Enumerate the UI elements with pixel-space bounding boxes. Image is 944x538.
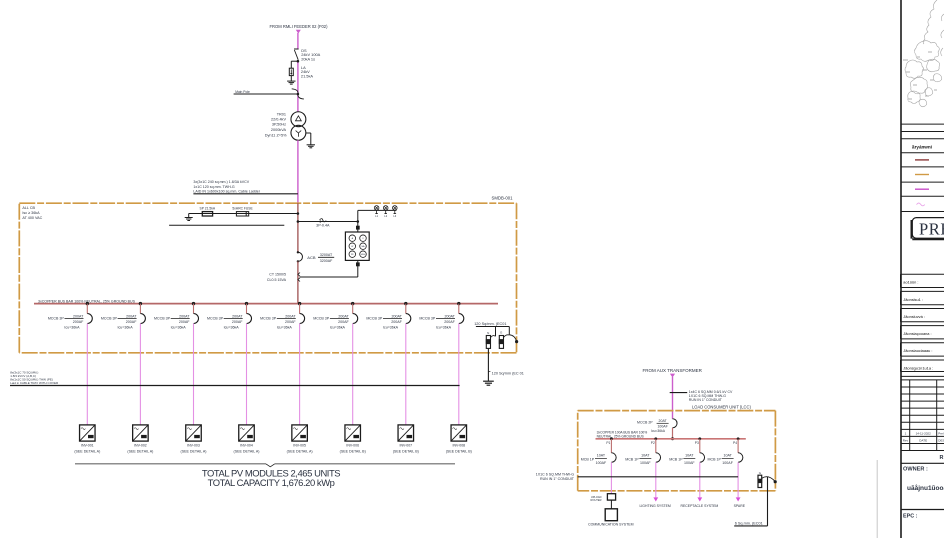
svg-text:OWNER :: OWNER : xyxy=(903,467,928,473)
svg-text:3200AT: 3200AT xyxy=(320,253,333,257)
svg-text:100AF: 100AF xyxy=(722,461,733,465)
svg-text:Jãonsgu1n1u1a :: Jãonsgu1n1u1a : xyxy=(903,365,933,370)
svg-text:PRE: PRE xyxy=(919,220,944,239)
svg-text:INV-001: INV-001 xyxy=(81,443,94,447)
svg-text:6 Sq.mm. (EC01: 6 Sq.mm. (EC01 xyxy=(735,521,763,525)
svg-text:Jãonsiauciaaau :: Jãonsiauciaaau : xyxy=(903,348,932,353)
svg-text:1X1C 6 SQ.MM THW-G: 1X1C 6 SQ.MM THW-G xyxy=(536,473,574,477)
svg-text:MCCB 3P: MCCB 3P xyxy=(419,317,436,321)
svg-text:5xHRC FUSE: 5xHRC FUSE xyxy=(232,206,253,210)
svg-text:200AT: 200AT xyxy=(232,314,243,318)
svg-text:200AT: 200AT xyxy=(444,314,455,318)
svg-text:MCCB 3P: MCCB 3P xyxy=(101,317,118,321)
svg-text:INV-005: INV-005 xyxy=(293,443,306,447)
svg-text:SP 21.5kA: SP 21.5kA xyxy=(200,206,216,210)
svg-text:INV-006: INV-006 xyxy=(346,443,359,447)
svg-text:10AT: 10AT xyxy=(641,454,650,458)
svg-text:Icu=36kA: Icu=36kA xyxy=(436,326,452,330)
svg-text:ACB: ACB xyxy=(307,255,316,260)
svg-text:10AT: 10AT xyxy=(597,454,606,458)
svg-text:10AT: 10AT xyxy=(723,454,732,458)
svg-text:100AF: 100AF xyxy=(596,461,607,465)
svg-text:200AF: 200AF xyxy=(285,320,296,324)
svg-text:22/0.4kV: 22/0.4kV xyxy=(271,118,286,122)
svg-text:MCCB 2P: MCCB 2P xyxy=(637,421,653,425)
svg-text:AT 400 VAC: AT 400 VAC xyxy=(22,216,42,220)
svg-text:Icu=36kA: Icu=36kA xyxy=(171,326,187,330)
svg-text:200AT: 200AT xyxy=(126,314,137,318)
svg-text:200AT: 200AT xyxy=(285,314,296,318)
svg-text:Isc ≥ 36kA: Isc ≥ 36kA xyxy=(22,211,40,215)
svg-text:MCCB 3P: MCCB 3P xyxy=(260,317,277,321)
svg-text:200AF: 200AF xyxy=(73,320,84,324)
svg-text:DES: DES xyxy=(938,439,944,443)
svg-text:P3: P3 xyxy=(695,441,699,445)
svg-text:20kA 1s: 20kA 1s xyxy=(301,56,315,61)
svg-text:MCCB 3P: MCCB 3P xyxy=(366,317,383,321)
svg-text:Jãonsiaçooana :: Jãonsiaçooana : xyxy=(903,331,931,336)
svg-text:RUN IN 1" CONDUIT: RUN IN 1" CONDUIT xyxy=(689,398,723,402)
svg-text:Icu=36kA: Icu=36kA xyxy=(383,326,399,330)
svg-text:Jãonsluvvá :: Jãonsluvvá : xyxy=(903,314,925,319)
svg-text:INV-003: INV-003 xyxy=(187,443,200,447)
svg-text:Dyn11 Z=5%: Dyn11 Z=5% xyxy=(265,133,287,137)
svg-text:INV-004: INV-004 xyxy=(240,443,253,447)
svg-text:MCCB 3P: MCCB 3P xyxy=(154,317,171,321)
svg-text:ALL CB: ALL CB xyxy=(22,206,35,210)
svg-text:Jãonslsu1 :: Jãonslsu1 : xyxy=(903,297,923,302)
svg-text:MCB 1P: MCB 1P xyxy=(625,457,639,461)
svg-text:200AF: 200AF xyxy=(126,320,137,324)
svg-text:(SEE DETAIL A): (SEE DETAIL A) xyxy=(287,450,313,454)
svg-text:uãåjnu1ũooann: uãåjnu1ũooann xyxy=(907,484,944,492)
svg-text:200AF: 200AF xyxy=(444,320,455,324)
svg-text:Icu=36kA: Icu=36kA xyxy=(224,326,240,330)
svg-text:(SEE DETAIL A): (SEE DETAIL A) xyxy=(74,450,100,454)
svg-text:RECEPTACLE SYSTEM: RECEPTACLE SYSTEM xyxy=(681,504,719,508)
svg-text:MCB 1P: MCB 1P xyxy=(669,457,683,461)
svg-text:(SEE DETAIL A): (SEE DETAIL A) xyxy=(181,450,207,454)
svg-text:MCCB 3P: MCCB 3P xyxy=(313,317,330,321)
svg-text:ãryánwni: ãryánwni xyxy=(912,144,932,149)
svg-text:SPARE: SPARE xyxy=(734,504,746,508)
svg-text:10AT: 10AT xyxy=(685,454,694,458)
svg-text:1X1C 6 SQ.MM THW-G: 1X1C 6 SQ.MM THW-G xyxy=(689,394,726,398)
svg-text:TOTAL CAPACITY 1,676.20 kWp: TOTAL CAPACITY 1,676.20 kWp xyxy=(208,477,335,488)
svg-text:21.5kA: 21.5kA xyxy=(301,73,314,78)
svg-text:Icu=36kA: Icu=36kA xyxy=(651,429,666,433)
svg-text:Icu=36kA: Icu=36kA xyxy=(118,326,134,330)
svg-text:RUN IN 1" CONDUIT: RUN IN 1" CONDUIT xyxy=(540,477,575,481)
svg-text:Icu=36kA: Icu=36kA xyxy=(330,326,346,330)
svg-text:120 Sq/mm. (EC01: 120 Sq/mm. (EC01 xyxy=(474,322,506,326)
svg-text:100AF: 100AF xyxy=(684,461,695,465)
svg-text:120 Sq/mm (EC 01: 120 Sq/mm (EC 01 xyxy=(492,371,524,375)
svg-text:P1: P1 xyxy=(606,441,610,445)
svg-text:INV-008: INV-008 xyxy=(452,443,465,447)
svg-text:R: R xyxy=(940,455,944,461)
svg-text:P2: P2 xyxy=(651,441,655,445)
svg-text:3x(3x1C 240 sq.mm.) 1.8/3A kVC: 3x(3x1C 240 sq.mm.) 1.8/3A kVCV xyxy=(193,180,249,184)
svg-text:(SEE DETAIL A): (SEE DETAIL A) xyxy=(127,450,153,454)
svg-text:ao1ûün :: ao1ûün : xyxy=(903,280,918,285)
svg-text:200AF: 200AF xyxy=(391,320,402,324)
svg-text:FROM AUX TRANSFORMER: FROM AUX TRANSFORMER xyxy=(642,368,702,373)
svg-text:Main Pole: Main Pole xyxy=(235,90,250,94)
svg-text:LAID IN 1x600x100 sq.mm. Cable: LAID IN 1x600x100 sq.mm. Cable Ladder xyxy=(193,190,260,194)
svg-text:(SEE DETAIL A): (SEE DETAIL A) xyxy=(234,450,260,454)
svg-text:DATE: DATE xyxy=(919,439,927,443)
svg-text:3xCOPPER 100A BUS BAR 100%: 3xCOPPER 100A BUS BAR 100% xyxy=(597,430,648,434)
svg-text:MCB 1P: MCB 1P xyxy=(708,457,722,461)
svg-text:20AT: 20AT xyxy=(659,419,668,423)
svg-text:200AT: 200AT xyxy=(391,314,402,318)
svg-text:100AF: 100AF xyxy=(657,425,667,429)
svg-text:1x1C 120 sq.mm. TWH-G: 1x1C 120 sq.mm. TWH-G xyxy=(193,185,234,189)
svg-text:CT 1500/5: CT 1500/5 xyxy=(269,273,286,277)
svg-text:EPC :: EPC : xyxy=(903,513,918,519)
svg-text:2000kVA: 2000kVA xyxy=(271,128,287,132)
svg-text:200AF: 200AF xyxy=(179,320,190,324)
svg-text:1x4C 6 SQ.MM 0.6/1 kV CV: 1x4C 6 SQ.MM 0.6/1 kV CV xyxy=(689,390,733,394)
svg-text:(SEE DETAIL B): (SEE DETAIL B) xyxy=(340,450,366,454)
svg-text:Icu=36kA: Icu=36kA xyxy=(277,326,293,330)
svg-text:MCB 1P: MCB 1P xyxy=(581,457,595,461)
svg-text:INV-002: INV-002 xyxy=(134,443,147,447)
svg-text:3P-0.4A: 3P-0.4A xyxy=(316,223,330,227)
svg-text:FROM RMLI FEEDER 02 (F02): FROM RMLI FEEDER 02 (F02) xyxy=(270,24,329,29)
svg-text:SMDB-001: SMDB-001 xyxy=(491,196,513,201)
svg-text:INV-007: INV-007 xyxy=(399,443,412,447)
svg-text:14-11-2022: 14-11-2022 xyxy=(916,432,931,436)
svg-text:MCCB 3P: MCCB 3P xyxy=(207,317,224,321)
svg-text:N: N xyxy=(487,331,489,335)
svg-text:200AF: 200AF xyxy=(338,320,349,324)
svg-text:CL0.5 15VA: CL0.5 15VA xyxy=(267,278,287,282)
svg-text:(SEE DETAIL B): (SEE DETAIL B) xyxy=(393,450,419,454)
svg-text:Icu=36kA: Icu=36kA xyxy=(64,326,80,330)
svg-text:Laid in CABLE TRAY WITH COVER: Laid in CABLE TRAY WITH COVER xyxy=(10,381,59,385)
svg-text:200AT: 200AT xyxy=(338,314,349,318)
svg-text:Prel: Prel xyxy=(938,432,944,436)
svg-text:TR01: TR01 xyxy=(277,112,286,116)
svg-text:NEUTRAL, 25% GROUND BUS: NEUTRAL, 25% GROUND BUS xyxy=(597,434,645,438)
svg-text:(SEE DETAIL B): (SEE DETAIL B) xyxy=(446,450,472,454)
svg-text:200AT: 200AT xyxy=(179,314,190,318)
svg-text:COMMUNICATION SYSTEM: COMMUNICATION SYSTEM xyxy=(588,523,634,527)
svg-text:MCCB 3P: MCCB 3P xyxy=(48,317,65,321)
svg-text:200AF: 200AF xyxy=(232,320,243,324)
svg-text:LIGHTING SYSTEM: LIGHTING SYSTEM xyxy=(639,504,670,508)
svg-text:Rev: Rev xyxy=(903,439,909,443)
svg-text:P4: P4 xyxy=(733,441,737,445)
svg-text:3200AF: 3200AF xyxy=(320,259,333,263)
svg-text:200AT: 200AT xyxy=(73,314,84,318)
svg-text:3P,50Hz: 3P,50Hz xyxy=(272,123,286,127)
svg-text:LOAD CONSUMER UNIT (LCC): LOAD CONSUMER UNIT (LCC) xyxy=(692,404,751,409)
svg-text:100AF: 100AF xyxy=(640,461,651,465)
